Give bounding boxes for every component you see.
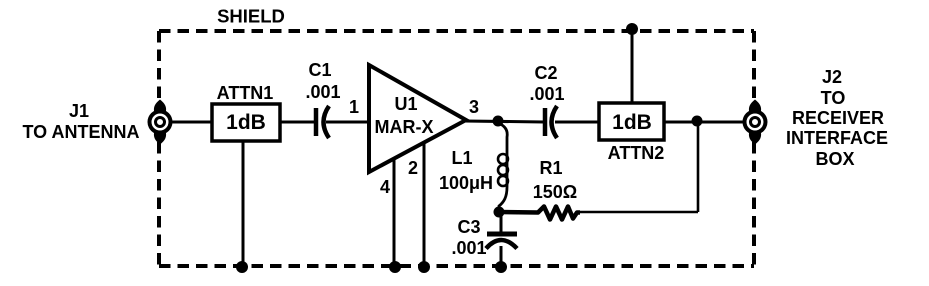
- wire C1 to U1 pin 1: [326, 121, 369, 124]
- pin 2 wire to shield bottom: [423, 142, 426, 266]
- connector J2: [745, 100, 766, 145]
- svg-text:1dB: 1dB: [226, 111, 266, 134]
- junction ATTN1 ground on shield: [236, 261, 248, 273]
- svg-text:ATTN1: ATTN1: [217, 83, 274, 103]
- svg-text:.001: .001: [305, 82, 340, 102]
- svg-text:.001: .001: [451, 238, 486, 258]
- label C3 .001: [451, 217, 486, 258]
- junction node L1 / R1 / C3: [494, 207, 505, 218]
- svg-text:R1: R1: [539, 158, 562, 178]
- svg-text:L1: L1: [451, 148, 472, 168]
- svg-text:1: 1: [349, 97, 359, 117]
- junction node pin3 / L1 top: [493, 116, 504, 127]
- svg-text:2: 2: [408, 158, 418, 178]
- wire ATTN1 to C1: [280, 121, 314, 124]
- svg-text:J2: J2: [822, 67, 842, 87]
- resistor R1: [499, 207, 580, 220]
- svg-text:MAR-X: MAR-X: [375, 117, 434, 137]
- svg-text:1dB: 1dB: [612, 111, 652, 134]
- junction C3 ground on shield: [495, 261, 507, 273]
- capacitor C2: [545, 106, 557, 138]
- inductor L1: [498, 123, 508, 212]
- svg-text:U1: U1: [394, 94, 417, 114]
- amplifier U1 MAR-X: [369, 65, 466, 172]
- svg-text:J1: J1: [69, 101, 89, 121]
- label L1 100uH: [439, 148, 493, 193]
- svg-text:C2: C2: [534, 63, 557, 83]
- wire U1 pin 3 to C2: [464, 121, 544, 122]
- attenuator ATTN1: [212, 104, 280, 141]
- svg-text:100μH: 100μH: [439, 173, 493, 193]
- svg-text:C3: C3: [457, 217, 480, 237]
- capacitor C1: [316, 106, 329, 138]
- svg-text:4: 4: [380, 177, 390, 197]
- junction pin 2 ground: [418, 261, 430, 273]
- junction ATTN2 output / R1 node: [692, 116, 703, 127]
- wire R1 to ATTN2 output node: [576, 121, 698, 212]
- svg-text:ATTN2: ATTN2: [608, 143, 665, 163]
- svg-text:C1: C1: [308, 60, 331, 80]
- capacitor C3: [486, 212, 517, 266]
- shield enclosure (dashed box): [159, 31, 754, 266]
- svg-text:SHIELD: SHIELD: [217, 6, 285, 27]
- svg-text:INTERFACE: INTERFACE: [786, 128, 888, 148]
- svg-text:150Ω: 150Ω: [533, 182, 577, 202]
- svg-text:TO ANTENNA: TO ANTENNA: [23, 122, 140, 142]
- svg-text:TO: TO: [821, 88, 846, 108]
- label J2 TO RECEIVER INTERFACE BOX: [786, 67, 888, 169]
- label R1 150ohm: [533, 158, 577, 202]
- label J1 TO ANTENNA: [23, 101, 140, 142]
- connector J1: [150, 100, 171, 145]
- svg-text:.001: .001: [529, 84, 564, 104]
- junction pin 4 ground: [389, 261, 401, 273]
- wire J1 to ATTN1: [170, 121, 212, 124]
- svg-text:RECEIVER: RECEIVER: [792, 108, 884, 128]
- wire ATTN2 to J2: [664, 121, 745, 124]
- junction ATTN2 feed on shield top: [626, 23, 638, 35]
- label C2 .001: [529, 63, 564, 104]
- svg-text:3: 3: [469, 97, 479, 117]
- label C1 .001: [305, 60, 340, 102]
- pin 4 wire to shield bottom: [393, 158, 396, 266]
- wire C2 to ATTN2: [555, 121, 599, 124]
- wire ATTN2 top to shield: [631, 30, 634, 103]
- svg-text:BOX: BOX: [815, 149, 854, 169]
- wire ATTN1 ground to shield bottom: [242, 141, 245, 266]
- attenuator ATTN2: [599, 103, 664, 140]
